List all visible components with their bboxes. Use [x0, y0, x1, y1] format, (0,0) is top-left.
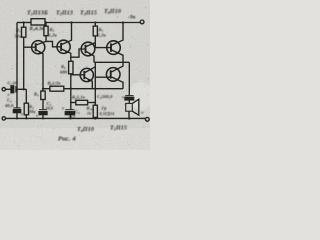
capacitor C2	[13, 107, 20, 109]
wire bottom ground bus	[6, 117, 146, 119]
wire C1 to base node	[16, 88, 26, 90]
terminal output plus	[145, 117, 149, 121]
arrow T4 emitter	[116, 52, 119, 55]
wire R5 node to T2 base	[46, 41, 61, 46]
wire emitter rail	[64, 88, 123, 90]
scan noise	[1, 1, 150, 148]
resistor R9 horizontal	[76, 100, 88, 105]
wire top supply bus right segment	[45, 22, 140, 24]
wire T5 collector up	[84, 67, 95, 73]
resistor R1	[23, 23, 25, 28]
wire output rail	[94, 61, 129, 63]
capacitor C5	[128, 62, 130, 95]
wire T4 collector to bus	[111, 23, 123, 46]
transistor T5	[80, 68, 93, 81]
arrow T1 emitter	[39, 52, 42, 55]
transistor T4	[107, 41, 121, 55]
wire T1 emitter	[36, 49, 43, 91]
wire T2 emitter	[61, 49, 71, 61]
wire R7 bottom to T4 base	[95, 36, 111, 48]
resistor R3 inline on bus	[31, 19, 45, 25]
capacitor C3	[39, 109, 47, 111]
wire T1 base column	[23, 37, 25, 89]
wire T5 collector / T6 base column	[94, 62, 96, 105]
terminal input upper	[2, 88, 5, 91]
wire T5 base from R6	[71, 74, 85, 76]
terminal -9v	[140, 20, 144, 24]
wire R6 column down	[70, 74, 72, 110]
resistor R4	[41, 91, 45, 100]
wire T6 emitter down	[111, 77, 123, 89]
loudspeaker Gr	[126, 103, 133, 111]
paper background	[0, 0, 150, 150]
paper grain	[0, 0, 150, 150]
transistor T2	[57, 40, 70, 53]
wire T6 base lead	[95, 76, 110, 78]
wire T3 base coupling	[71, 49, 86, 57]
terminal input lower	[2, 117, 5, 120]
wire T6 collector to rail	[111, 62, 123, 72]
arrow T6 emitter	[115, 78, 118, 81]
wire T4 emitter to rail	[111, 50, 123, 63]
wire T1 base lead	[24, 46, 36, 48]
resistor R5	[45, 23, 47, 27]
wire T3 emitter to rail	[86, 51, 95, 62]
wire T2 collector to bus	[61, 23, 71, 45]
resistor R6	[69, 61, 73, 74]
capacitor C4	[65, 109, 74, 111]
arrow T5 emitter	[88, 79, 91, 82]
resistor R8 horizontal	[50, 86, 64, 91]
resistor R7	[94, 23, 96, 27]
resistor R2	[25, 89, 27, 103]
junction dots	[16, 21, 131, 119]
transistor T3	[81, 42, 95, 56]
wire top supply bus left segment	[17, 22, 31, 24]
capacitor C1	[6, 88, 12, 90]
wire C2 feed line	[16, 23, 18, 108]
transistor T6	[106, 68, 120, 82]
wire T3 collector to T4 base node	[86, 43, 96, 47]
arrow T2 emitter	[65, 51, 68, 54]
wire T5 emitter down	[84, 77, 92, 89]
wire T1 collector to R5 node	[36, 41, 46, 45]
resistor R10 vertical	[93, 105, 97, 117]
scan glare patch	[129, 82, 153, 110]
transistor T1	[32, 41, 45, 54]
labels	[4, 9, 144, 143]
arrow T3 emitter	[89, 53, 92, 56]
